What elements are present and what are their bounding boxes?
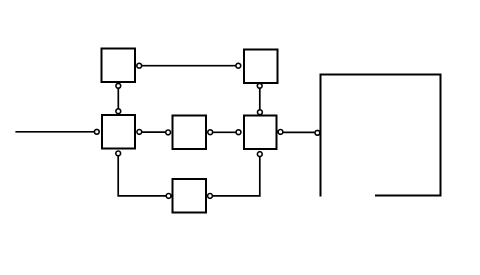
- wire W9: U6 right pin right and up to U5 bottom pin: [210, 154, 260, 196]
- pin U5.top: [258, 110, 263, 115]
- pin U2.left: [236, 63, 241, 68]
- block U1 (top-left): [102, 49, 136, 83]
- pin U3.left: [94, 129, 99, 134]
- wire W2: U1 right pin to U2 left pin: [139, 65, 238, 67]
- pin U2.bottom: [257, 83, 262, 88]
- pin U5.left: [236, 130, 241, 135]
- block U4 (middle-center): [173, 116, 207, 150]
- wire W7: U5 right pin to big box port: [281, 131, 318, 133]
- pin U5.right: [278, 130, 283, 135]
- pin U6.right: [208, 194, 213, 199]
- pin U3.top: [116, 109, 121, 114]
- pin U5.bottom: [257, 152, 262, 157]
- pin U1.bottom: [116, 83, 121, 88]
- wire W4: U2 bottom pin to U5 top pin: [259, 86, 261, 112]
- pin U6.left: [166, 194, 171, 199]
- wire W6: U4 right pin to U5 left pin: [210, 131, 238, 133]
- block U2 (top-right): [244, 50, 278, 84]
- wire W1: input line to block U3 left pin: [15, 131, 96, 133]
- port on big box left edge: [315, 130, 320, 135]
- block U5 (middle-right): [244, 116, 277, 150]
- pin U1.right: [137, 63, 142, 68]
- block U6 (bottom-center): [173, 179, 207, 213]
- wire W8: U3 bottom pin down and right to U6 left pin: [118, 153, 168, 196]
- pin U4.left: [166, 130, 171, 135]
- block U3 (middle-left): [102, 115, 135, 149]
- pin U3.right: [137, 130, 142, 135]
- pin U4.right: [208, 130, 213, 135]
- big open box (subsystem outline, bottom-left gap): [321, 75, 441, 197]
- wire W3: U1 bottom pin to U3 top pin: [117, 86, 119, 111]
- wire W5: U3 right pin to U4 left pin: [139, 131, 168, 133]
- pin U3.bottom: [116, 151, 121, 156]
